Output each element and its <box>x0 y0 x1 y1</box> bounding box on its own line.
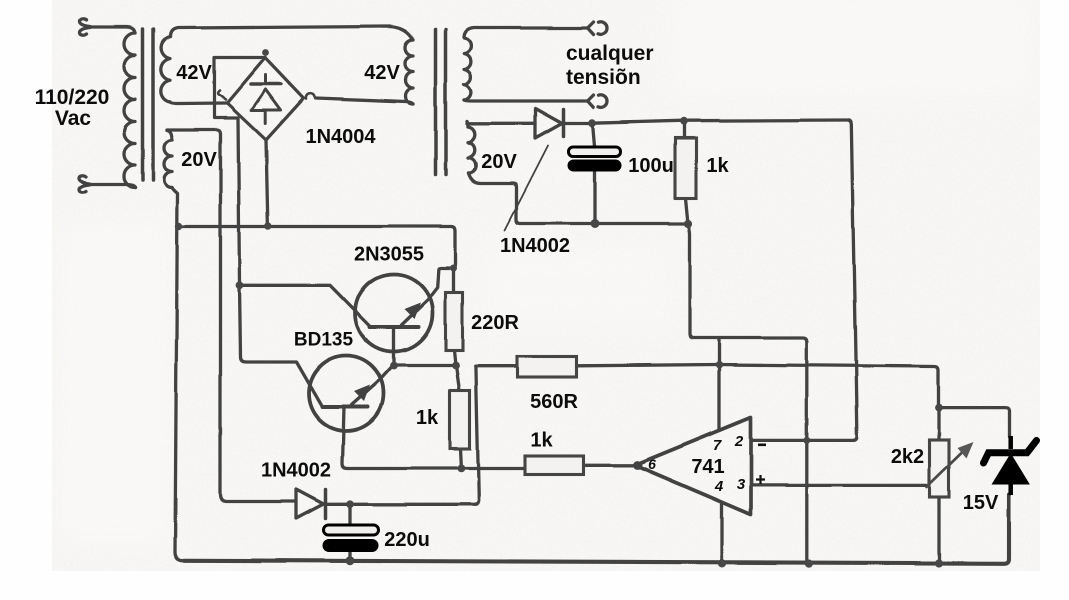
svg-text:560R: 560R <box>530 391 578 413</box>
svg-text:20V: 20V <box>181 149 217 171</box>
svg-text:110/220: 110/220 <box>35 86 110 109</box>
svg-text:cualquer: cualquer <box>566 42 654 65</box>
svg-text:20V: 20V <box>481 151 517 173</box>
svg-text:1k: 1k <box>416 407 439 429</box>
svg-text:3: 3 <box>737 476 746 493</box>
svg-text:4: 4 <box>714 478 724 495</box>
svg-text:7: 7 <box>713 437 722 454</box>
svg-text:42V: 42V <box>364 62 400 84</box>
svg-text:220u: 220u <box>384 529 430 551</box>
svg-text:42V: 42V <box>176 62 212 84</box>
svg-text:2N3055: 2N3055 <box>354 244 424 266</box>
svg-text:741: 741 <box>691 456 724 478</box>
svg-text:1N4004: 1N4004 <box>305 126 376 148</box>
svg-text:220R: 220R <box>471 312 519 334</box>
svg-text:2k2: 2k2 <box>891 446 924 468</box>
svg-text:Vac: Vac <box>55 107 92 130</box>
svg-text:100u: 100u <box>628 155 674 177</box>
svg-text:1N4002: 1N4002 <box>500 235 570 257</box>
svg-text:2: 2 <box>734 433 744 450</box>
svg-text:1k: 1k <box>706 155 729 177</box>
svg-text:6: 6 <box>648 456 656 472</box>
svg-text:15V: 15V <box>963 492 999 514</box>
svg-text:BD135: BD135 <box>294 330 354 351</box>
svg-text:tensiõn: tensiõn <box>566 66 641 89</box>
svg-text:1N4002: 1N4002 <box>261 460 331 482</box>
svg-text:1k: 1k <box>530 430 553 452</box>
